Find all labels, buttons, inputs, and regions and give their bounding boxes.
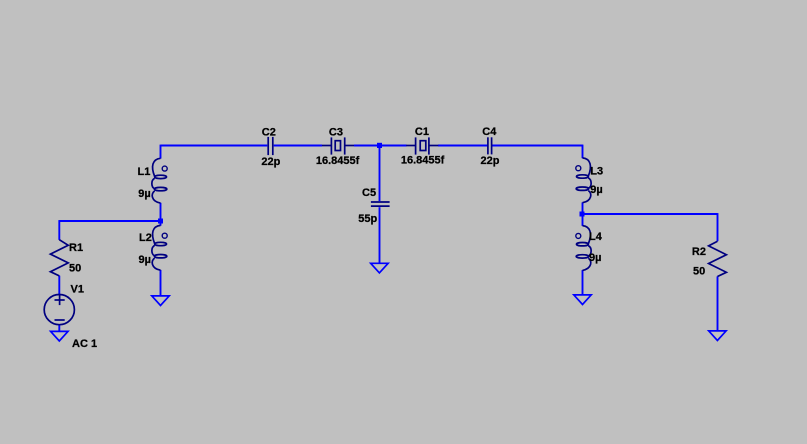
svg-text:22p: 22p (481, 155, 500, 167)
svg-text:R2: R2 (692, 246, 706, 258)
capacitor C4 (488, 137, 492, 154)
wire C5 branch upper (379, 146, 381, 202)
svg-text:C1: C1 (415, 126, 429, 138)
svg-text:L3: L3 (590, 165, 603, 177)
svg-text:L1: L1 (138, 166, 151, 178)
svg-text:C3: C3 (329, 127, 343, 139)
wire R1 top lead (58, 220, 60, 240)
voltage source V1 (44, 295, 74, 325)
wire R1 to V1 (58, 276, 60, 295)
wire top rail segment 3 (354, 145, 407, 147)
ground below L2 (152, 296, 169, 306)
wire right link to R2 (583, 213, 718, 215)
wire C5 branch lower (379, 207, 381, 263)
svg-text:16.8455f: 16.8455f (401, 155, 445, 167)
ground below R2 (709, 331, 726, 341)
ground below C5 (371, 263, 388, 273)
svg-text:9µ: 9µ (138, 188, 150, 200)
svg-text:16.8455f: 16.8455f (316, 155, 360, 167)
wire right vertical L3 to L4 (582, 202, 584, 226)
wire left vertical above L1 (160, 145, 162, 159)
svg-text:22p: 22p (261, 156, 280, 168)
node junction at C5 tap (377, 143, 382, 148)
resistor R2 (709, 241, 727, 276)
wire V1 to ground (58, 325, 60, 332)
svg-text:55p: 55p (358, 213, 377, 225)
capacitor C3 (crystal style) (322, 137, 354, 154)
wire top rail segment 2 (274, 145, 322, 147)
resistor R1 (50, 240, 68, 276)
capacitor C1 (crystal style) (406, 137, 438, 154)
inductor L4 (mirrored) (576, 226, 591, 271)
ground below V1 (51, 331, 68, 341)
svg-text:AC 1: AC 1 (72, 338, 97, 350)
ground below L4 (574, 295, 591, 305)
svg-text:C4: C4 (482, 126, 497, 138)
inductor L3 (mirrored) (576, 158, 591, 203)
wire top rail segment 1 (161, 145, 268, 147)
wire right vertical above L3 (582, 145, 584, 159)
svg-text:L4: L4 (589, 231, 603, 243)
svg-text:9µ: 9µ (589, 252, 601, 264)
wire top rail segment 5 (492, 145, 583, 147)
svg-text:9µ: 9µ (139, 254, 151, 266)
node junction right L3-L4 (580, 212, 585, 217)
inductor L2 (152, 225, 167, 270)
svg-text:9µ: 9µ (590, 184, 602, 196)
wire top rail segment 4 (438, 145, 487, 147)
svg-text:R1: R1 (69, 242, 83, 254)
wire left vertical L2 to ground (160, 270, 162, 296)
svg-text:L2: L2 (139, 232, 152, 244)
node junction left L1-L2 (158, 219, 163, 224)
svg-text:C5: C5 (362, 187, 376, 199)
svg-text:C2: C2 (262, 127, 276, 139)
wire R2 to ground (717, 276, 719, 331)
wire left vertical L1 to L2 (160, 203, 162, 226)
svg-text:50: 50 (693, 265, 705, 277)
svg-text:50: 50 (69, 262, 81, 274)
wire right vertical L4 to ground (582, 270, 584, 295)
inductor L1 (152, 158, 167, 203)
svg-text:V1: V1 (71, 283, 84, 295)
capacitor C5 (371, 202, 390, 206)
wire left link to R1 (59, 220, 161, 222)
capacitor C2 (268, 137, 273, 155)
wire R2 top lead (717, 213, 719, 241)
